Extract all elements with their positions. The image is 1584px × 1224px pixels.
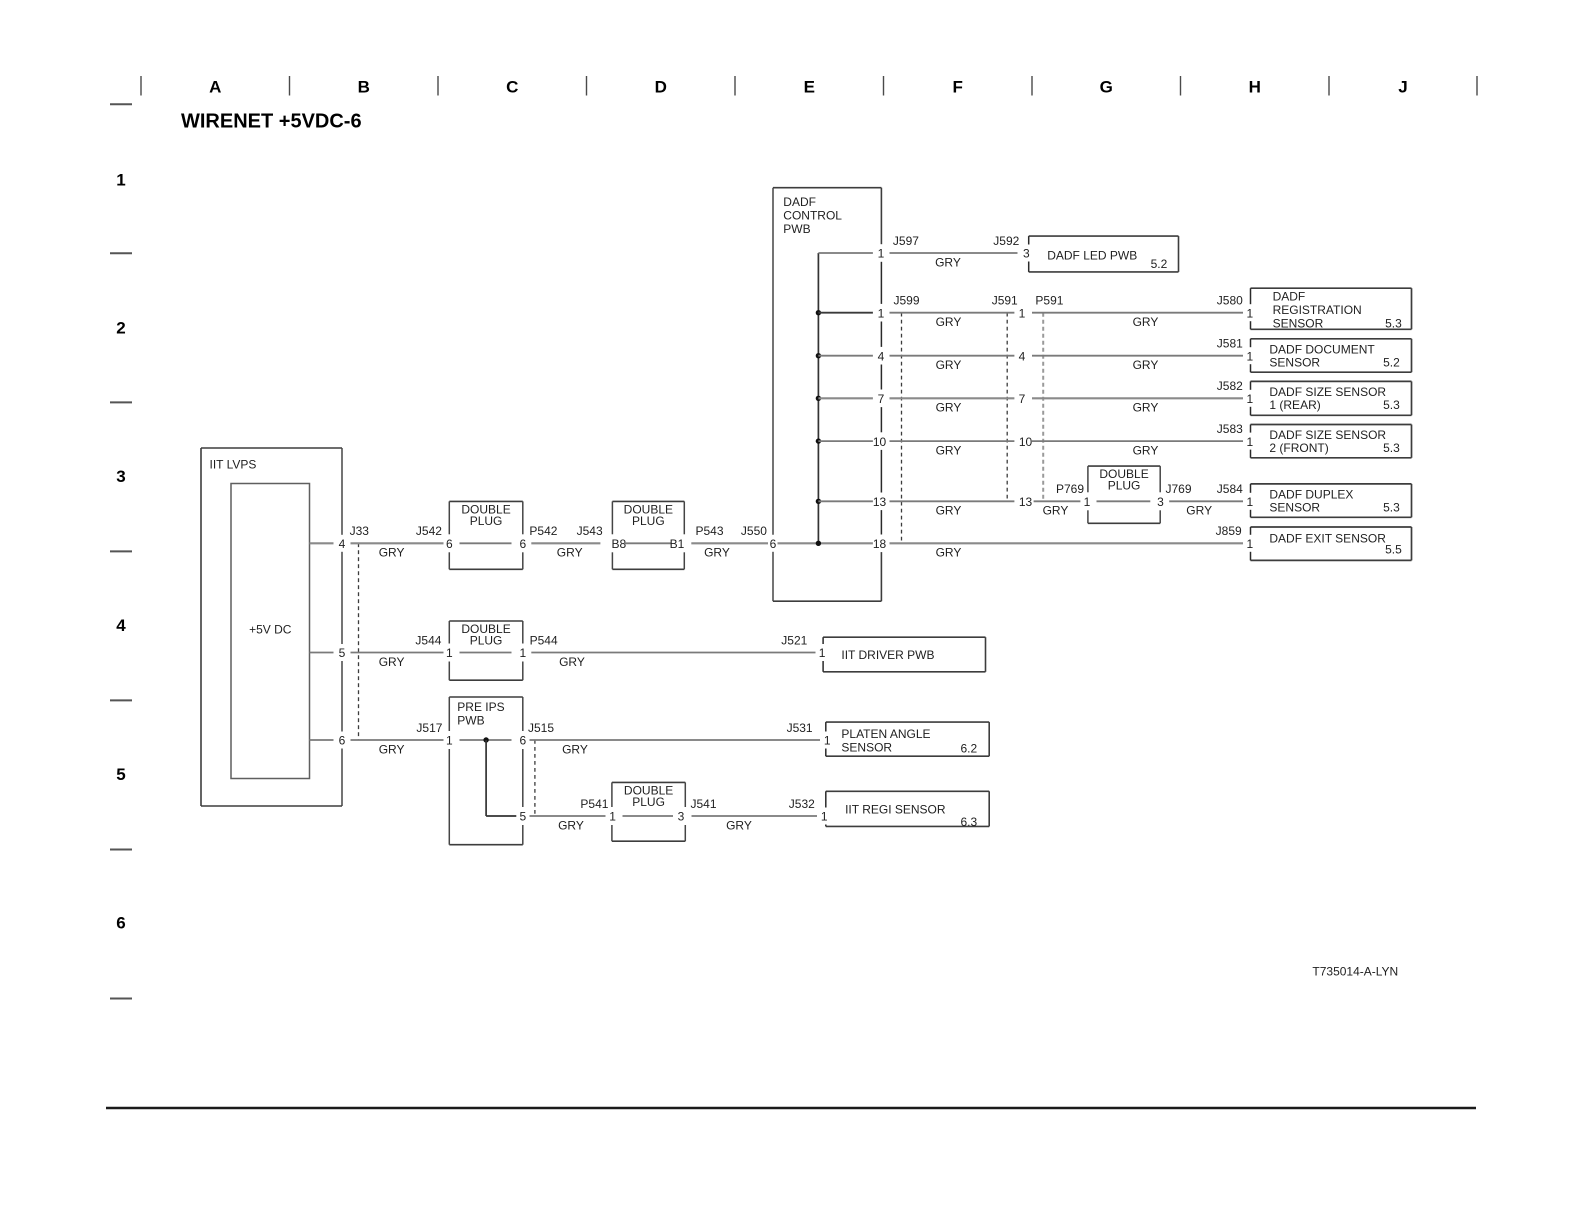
- pin 7 of J599 on pwb edge: [878, 392, 885, 406]
- connector P591 label: [1035, 294, 1063, 308]
- double plug J544/P544 box: [449, 621, 523, 680]
- svg-text:J592: J592: [993, 234, 1019, 248]
- svg-text:J33: J33: [350, 524, 370, 538]
- svg-text:4: 4: [878, 349, 885, 363]
- double plug internal wire: [460, 542, 512, 544]
- double plug pin 3: [678, 810, 685, 824]
- double plug pin 1: [609, 810, 616, 824]
- connector J859 label: [1216, 524, 1242, 538]
- svg-text:J515: J515: [528, 721, 554, 735]
- connector J532 label: [789, 797, 815, 811]
- pin 1 of J599 on pwb edge: [878, 306, 885, 320]
- wire bus to edge pin 4: [818, 355, 873, 357]
- title WIRENET +5VDC-6: [181, 110, 362, 132]
- svg-text:GRY: GRY: [936, 443, 962, 457]
- connector J521 pin 1: [819, 646, 826, 660]
- connector J543 label: [577, 524, 603, 538]
- wire GRY J33-6 to J517: [351, 740, 444, 756]
- sensor DADF EXIT SENSOR box: [1251, 527, 1412, 560]
- double plug J542/P542 box: [449, 501, 523, 569]
- svg-text:1: 1: [1084, 495, 1091, 509]
- connector J592 pin 3: [1023, 247, 1030, 261]
- double plug internal wire: [623, 815, 674, 817]
- connector J582 label: [1217, 379, 1243, 393]
- svg-text:E: E: [804, 78, 815, 97]
- svg-text:1: 1: [1246, 306, 1253, 320]
- double plug pin B8: [612, 537, 627, 551]
- wire GRY P591 to J582: [1032, 398, 1243, 414]
- svg-text:GRY: GRY: [1133, 401, 1159, 415]
- svg-text:6.3: 6.3: [961, 815, 978, 829]
- svg-text:1: 1: [1019, 306, 1026, 320]
- double plug pin 1 (left): [446, 646, 453, 660]
- connector J583 pin 1: [1246, 435, 1253, 449]
- svg-text:J580: J580: [1217, 294, 1243, 308]
- pwb DADF LED PWB box: [1029, 236, 1179, 272]
- sensor DADF SIZE SENSOR 1 (REAR) box: [1251, 381, 1412, 415]
- svg-text:DADF: DADF: [783, 195, 816, 209]
- svg-text:DADF DUPLEX: DADF DUPLEX: [1269, 488, 1353, 502]
- svg-text:PLUG: PLUG: [470, 634, 503, 648]
- junction dot row F: [816, 499, 821, 504]
- svg-text:PRE IPS: PRE IPS: [457, 700, 504, 714]
- junction dot row G: [816, 541, 821, 546]
- svg-text:IIT DRIVER PWB: IIT DRIVER PWB: [841, 648, 934, 662]
- svg-text:6: 6: [116, 914, 125, 933]
- connector J591 pin 7: [1019, 392, 1026, 406]
- connector J599 label: [894, 294, 920, 308]
- svg-text:PLATEN ANGLE: PLATEN ANGLE: [841, 727, 930, 741]
- connector J583 label: [1217, 422, 1243, 436]
- connector J515 pin 6: [519, 734, 526, 748]
- svg-text:13: 13: [873, 495, 887, 509]
- wire GRY J597 to J592: [890, 253, 1018, 269]
- wire GRY J769 to J584: [1169, 501, 1243, 517]
- svg-text:6.2: 6.2: [961, 742, 978, 756]
- pin 4 of J599 on pwb edge: [878, 349, 885, 363]
- svg-text:1: 1: [1246, 495, 1253, 509]
- double plug pin B1: [670, 537, 685, 551]
- connector J550 label: [741, 524, 767, 538]
- svg-text:1: 1: [519, 646, 526, 660]
- svg-text:SENSOR: SENSOR: [841, 740, 892, 754]
- svg-text:J584: J584: [1217, 482, 1243, 496]
- zone tick marks (frame): [141, 76, 1477, 96]
- double plug pin 6 (right): [519, 537, 526, 551]
- svg-text:GRY: GRY: [1043, 504, 1069, 518]
- pwb IIT DRIVER PWB box: [823, 637, 985, 672]
- connector J33 pin 4: [339, 537, 346, 551]
- pwb PRE IPS PWB box: [449, 697, 523, 845]
- wire GRY P591 to J581: [1032, 356, 1243, 372]
- svg-text:DADF SIZE SENSOR: DADF SIZE SENSOR: [1269, 428, 1386, 442]
- double plug pin 3: [1157, 495, 1164, 509]
- wire bus to edge pin 10: [818, 440, 873, 442]
- svg-text:J859: J859: [1216, 524, 1242, 538]
- connector J541 label: [691, 797, 717, 811]
- connector J532 pin 1: [821, 810, 828, 824]
- sensor PLATEN ANGLE SENSOR box: [826, 722, 989, 756]
- +5V bus line inside DADF CONTROL PWB: [817, 253, 819, 543]
- left margin zone dashes (frame): [110, 104, 132, 998]
- connector J531 label: [787, 721, 813, 735]
- wire GRY J515-5 to P541: [530, 816, 606, 832]
- wire GRY J599 to J591 row pin 10: [890, 441, 1015, 457]
- svg-text:J597: J597: [893, 234, 919, 248]
- svg-text:GRY: GRY: [562, 742, 588, 756]
- connector J591 label: [992, 294, 1018, 308]
- svg-text:2: 2: [116, 319, 125, 338]
- svg-text:GRY: GRY: [726, 818, 752, 832]
- svg-text:3: 3: [1023, 247, 1030, 261]
- svg-text:GRY: GRY: [1133, 315, 1159, 329]
- svg-text:DADF SIZE SENSOR: DADF SIZE SENSOR: [1269, 385, 1386, 399]
- svg-text:18: 18: [873, 537, 887, 551]
- svg-text:5.5: 5.5: [1385, 543, 1402, 557]
- junction dot row D: [816, 396, 821, 401]
- connector J591 dashed harness line: [1006, 313, 1008, 502]
- bottom border rule: [106, 1107, 1476, 1110]
- svg-text:J543: J543: [577, 524, 603, 538]
- svg-text:J531: J531: [787, 721, 813, 735]
- wire GRY P544 to J521: [531, 653, 815, 669]
- wire GRY J33-4 to J542: [351, 543, 444, 559]
- connector P541 label: [580, 797, 608, 811]
- svg-text:3: 3: [678, 810, 685, 824]
- pin 1 of J597 on pwb edge: [878, 247, 885, 261]
- svg-text:J583: J583: [1217, 422, 1243, 436]
- svg-text:IIT LVPS: IIT LVPS: [210, 457, 257, 471]
- junction dot row C: [816, 353, 821, 358]
- connector J591 pin 1: [1019, 306, 1026, 320]
- svg-text:5.3: 5.3: [1383, 441, 1400, 455]
- svg-text:J: J: [1398, 78, 1407, 97]
- svg-text:J541: J541: [691, 797, 717, 811]
- svg-text:GRY: GRY: [559, 655, 585, 669]
- junction dot row E: [816, 438, 821, 443]
- svg-text:GRY: GRY: [1133, 443, 1159, 457]
- connector P769 label: [1056, 482, 1084, 496]
- power supply IIT LVPS box: [201, 448, 342, 806]
- connector J581 pin 1: [1246, 349, 1253, 363]
- svg-text:1: 1: [446, 734, 453, 748]
- connector J550 pin 6: [770, 537, 777, 551]
- connector J33 pin 5: [339, 646, 346, 660]
- wire GRY J599 to J591 row pin 13: [890, 501, 1015, 517]
- svg-text:1: 1: [821, 810, 828, 824]
- svg-text:SENSOR: SENSOR: [1269, 355, 1320, 369]
- wire GRY J599 to J591 row pin 4: [890, 356, 1015, 372]
- svg-text:6: 6: [339, 734, 346, 748]
- svg-text:5.2: 5.2: [1383, 355, 1400, 369]
- connector J521 label: [781, 633, 807, 647]
- svg-text:J591: J591: [992, 294, 1018, 308]
- connector J515 label: [528, 721, 554, 735]
- svg-text:5: 5: [339, 646, 346, 660]
- svg-text:CONTROL: CONTROL: [783, 209, 842, 223]
- double plug P769/J769 box: [1088, 466, 1160, 523]
- svg-text:DADF: DADF: [1273, 289, 1306, 303]
- connector J591 pin 10: [1019, 435, 1033, 449]
- svg-text:+5V DC: +5V DC: [249, 622, 292, 636]
- svg-text:GRY: GRY: [936, 401, 962, 415]
- connector J33 label: [350, 524, 370, 538]
- svg-text:WIRENET +5VDC-6: WIRENET +5VDC-6: [181, 110, 362, 132]
- wire GRY P542 to J543: [531, 543, 600, 559]
- double plug pin 1 (right): [519, 646, 526, 660]
- svg-text:1: 1: [878, 247, 885, 261]
- svg-text:3: 3: [1157, 495, 1164, 509]
- connector J769 label: [1166, 482, 1192, 496]
- svg-text:H: H: [1249, 78, 1261, 97]
- connector J599 dashed harness line: [901, 313, 903, 544]
- double plug internal wire: [460, 652, 512, 654]
- svg-text:GRY: GRY: [704, 546, 730, 560]
- svg-text:1: 1: [824, 734, 831, 748]
- connector P591 dashed harness line: [1042, 313, 1044, 502]
- svg-text:5.2: 5.2: [1151, 257, 1168, 271]
- svg-text:5: 5: [116, 765, 125, 784]
- svg-text:P543: P543: [696, 524, 724, 538]
- svg-text:SENSOR: SENSOR: [1269, 500, 1320, 514]
- wire +5V from +5V DC to J33 pin 5: [310, 652, 334, 654]
- connector J515 dashed harness line: [534, 740, 536, 816]
- svg-text:1: 1: [1246, 349, 1253, 363]
- connector J591 pin 4: [1019, 349, 1026, 363]
- double plug J543/P543 box: [612, 501, 684, 569]
- sensor DADF REGISTRATION SENSOR box: [1251, 288, 1412, 330]
- svg-text:REGISTRATION: REGISTRATION: [1273, 303, 1362, 317]
- wire GRY P591 to J583: [1032, 441, 1243, 457]
- svg-text:GRY: GRY: [379, 655, 405, 669]
- svg-text:1: 1: [1246, 537, 1253, 551]
- svg-text:6: 6: [446, 537, 453, 551]
- svg-text:GRY: GRY: [379, 546, 405, 560]
- svg-text:GRY: GRY: [936, 546, 962, 560]
- svg-text:T735014-A-LYN: T735014-A-LYN: [1312, 965, 1398, 979]
- svg-text:5.3: 5.3: [1383, 500, 1400, 514]
- wire bus to edge pin 13: [818, 500, 873, 502]
- svg-text:6: 6: [519, 734, 526, 748]
- connector J591 pin 13: [1019, 495, 1033, 509]
- wire GRY J599 to J591 row pin 1: [890, 313, 1015, 329]
- drawing number T735014-A-LYN: [1312, 965, 1398, 979]
- svg-text:GRY: GRY: [1133, 358, 1159, 372]
- svg-text:IIT REGI SENSOR: IIT REGI SENSOR: [845, 803, 946, 817]
- svg-text:F: F: [953, 78, 963, 97]
- svg-text:C: C: [506, 78, 518, 97]
- svg-text:6: 6: [770, 537, 777, 551]
- svg-text:P542: P542: [529, 524, 557, 538]
- wire GRY J541 to J532: [692, 816, 818, 832]
- svg-text:5.3: 5.3: [1383, 398, 1400, 412]
- connector P544 label: [530, 633, 558, 647]
- pwb DADF CONTROL PWB box: [773, 188, 881, 602]
- connector J580 pin 1: [1246, 306, 1253, 320]
- svg-text:3: 3: [116, 467, 125, 486]
- wire GRY P591 to J580: [1032, 313, 1243, 329]
- svg-text:7: 7: [878, 392, 885, 406]
- connector P543 label: [696, 524, 724, 538]
- svg-text:PLUG: PLUG: [632, 795, 665, 809]
- svg-text:4: 4: [339, 537, 346, 551]
- wire GRY J515-6 to J531: [530, 740, 821, 756]
- svg-text:J521: J521: [781, 633, 807, 647]
- junction dot row B: [816, 310, 821, 315]
- wire GRY J33-5 to J544: [351, 653, 444, 669]
- connector J581 label: [1217, 337, 1243, 351]
- wire bus to edge pin 1 (J597): [818, 252, 873, 254]
- wire bus to edge pin 1 (J599): [818, 312, 873, 314]
- svg-text:GRY: GRY: [936, 315, 962, 329]
- svg-text:J517: J517: [416, 721, 442, 735]
- svg-text:6: 6: [519, 537, 526, 551]
- svg-text:D: D: [655, 78, 667, 97]
- svg-text:1: 1: [1246, 392, 1253, 406]
- svg-text:DADF DOCUMENT: DADF DOCUMENT: [1269, 342, 1375, 356]
- svg-text:13: 13: [1019, 495, 1033, 509]
- connector J580 label: [1217, 294, 1243, 308]
- svg-text:1: 1: [609, 810, 616, 824]
- svg-text:GRY: GRY: [379, 742, 405, 756]
- svg-text:J550: J550: [741, 524, 767, 538]
- wire +5V from +5V DC to J33 pin 4: [310, 542, 334, 544]
- svg-text:4: 4: [1019, 349, 1026, 363]
- sensor DADF SIZE SENSOR 2 (FRONT) box: [1251, 425, 1412, 458]
- svg-text:GRY: GRY: [557, 546, 583, 560]
- svg-text:J542: J542: [416, 524, 442, 538]
- connector J542 label: [416, 524, 442, 538]
- branch wire down inside PRE IPS PWB: [486, 740, 516, 816]
- connector J33 pin 6: [339, 734, 346, 748]
- svg-text:P544: P544: [530, 633, 558, 647]
- svg-text:1: 1: [878, 306, 885, 320]
- zone row numbers 1-6: [116, 170, 126, 932]
- svg-text:PLUG: PLUG: [632, 514, 665, 528]
- svg-text:GRY: GRY: [936, 504, 962, 518]
- connector J582 pin 1: [1246, 392, 1253, 406]
- zone column letters A-J: [209, 78, 1408, 97]
- connector P542 label: [529, 524, 557, 538]
- svg-text:GRY: GRY: [1186, 504, 1212, 518]
- connector J592 label: [993, 234, 1019, 248]
- connector J531 pin 1: [824, 734, 831, 748]
- svg-text:1: 1: [1246, 435, 1253, 449]
- svg-text:PWB: PWB: [457, 714, 484, 728]
- svg-text:PLUG: PLUG: [470, 514, 503, 528]
- connector J584 pin 1: [1246, 495, 1253, 509]
- svg-text:DADF LED PWB: DADF LED PWB: [1047, 248, 1137, 262]
- svg-text:P541: P541: [580, 797, 608, 811]
- pin 18 of J599 on pwb edge: [873, 537, 887, 551]
- connector J517 pin 1: [446, 734, 453, 748]
- wire inside PRE IPS PWB to junction: [460, 739, 512, 741]
- pin 10 of J599 on pwb edge: [873, 435, 887, 449]
- svg-text:P591: P591: [1035, 294, 1063, 308]
- svg-text:GRY: GRY: [558, 818, 584, 832]
- connector J515 pin 5: [519, 810, 526, 824]
- svg-text:SENSOR: SENSOR: [1273, 317, 1324, 331]
- wire J550 pin6 through bus junction: [778, 542, 873, 544]
- double plug P541/J541 box: [612, 782, 685, 841]
- wire GRY J599-18 to J859: [890, 543, 1244, 559]
- connector J597 label: [893, 234, 919, 248]
- svg-text:1: 1: [819, 646, 826, 660]
- svg-text:G: G: [1100, 78, 1113, 97]
- wire GRY P543 to J550: [691, 543, 768, 559]
- svg-text:1 (REAR): 1 (REAR): [1269, 398, 1320, 412]
- double plug pin 1: [1084, 495, 1091, 509]
- double plug internal wire: [1097, 500, 1151, 502]
- svg-text:J581: J581: [1217, 337, 1243, 351]
- svg-text:GRY: GRY: [935, 255, 961, 269]
- +5V DC module box inside LVPS: [231, 484, 310, 779]
- svg-text:1: 1: [116, 170, 125, 189]
- svg-text:J544: J544: [415, 633, 441, 647]
- svg-text:4: 4: [116, 616, 126, 635]
- sensor IIT REGI SENSOR box: [826, 791, 989, 829]
- connector J33 dashed harness line: [358, 543, 360, 740]
- wire +5V from +5V DC to J33 pin 6: [310, 739, 334, 741]
- svg-text:J769: J769: [1166, 482, 1192, 496]
- svg-text:10: 10: [1019, 435, 1033, 449]
- svg-text:A: A: [209, 78, 221, 97]
- connector J859 pin 1: [1246, 537, 1253, 551]
- pin 13 of J599 on pwb edge: [873, 495, 887, 509]
- sensor DADF DOCUMENT SENSOR box: [1251, 339, 1412, 372]
- double plug pin 6 (left): [446, 537, 453, 551]
- svg-text:J599: J599: [894, 294, 920, 308]
- svg-text:B1: B1: [670, 537, 685, 551]
- sensor DADF DUPLEX SENSOR box: [1251, 484, 1412, 517]
- svg-text:B: B: [358, 78, 370, 97]
- svg-text:J582: J582: [1217, 379, 1243, 393]
- junction dot inside PRE IPS PWB: [483, 737, 488, 742]
- svg-text:7: 7: [1019, 392, 1026, 406]
- svg-text:2 (FRONT): 2 (FRONT): [1269, 441, 1328, 455]
- svg-text:P769: P769: [1056, 482, 1084, 496]
- svg-text:PLUG: PLUG: [1108, 479, 1141, 493]
- svg-text:GRY: GRY: [936, 358, 962, 372]
- svg-text:PWB: PWB: [783, 222, 810, 236]
- svg-text:DADF EXIT SENSOR: DADF EXIT SENSOR: [1269, 532, 1386, 546]
- connector J517 label: [416, 721, 442, 735]
- wire bus to edge pin 7: [818, 397, 873, 399]
- svg-text:J532: J532: [789, 797, 815, 811]
- svg-text:1: 1: [446, 646, 453, 660]
- svg-text:10: 10: [873, 435, 887, 449]
- double plug internal wire: [624, 542, 671, 544]
- wire GRY P591 to P769: [1034, 501, 1081, 517]
- connector J544 label: [415, 633, 441, 647]
- svg-text:5.3: 5.3: [1385, 317, 1402, 331]
- svg-text:5: 5: [519, 810, 526, 824]
- connector J584 label: [1217, 482, 1243, 496]
- wire GRY J599 to J591 row pin 7: [890, 398, 1015, 414]
